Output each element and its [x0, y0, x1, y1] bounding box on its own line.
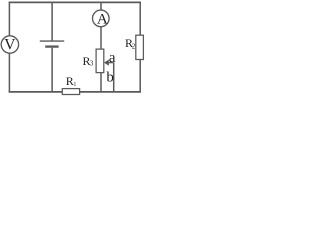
resistor R2 body	[136, 35, 144, 59]
wire top bus	[9, 1, 141, 3]
svg-text:b: b	[106, 70, 114, 86]
wire right branch lower	[139, 60, 141, 93]
label R3	[83, 54, 94, 68]
battery cell	[40, 41, 64, 47]
wire wiper drop to bottom bus	[113, 63, 115, 92]
wire rheostat lower lead	[100, 73, 102, 92]
svg-text:1: 1	[73, 82, 76, 88]
label R1	[66, 74, 77, 88]
resistor R1 body	[62, 89, 79, 95]
wiper arrow of R3	[104, 60, 114, 66]
rheostat R3 body	[96, 49, 104, 73]
wire ammeter branch upper	[100, 2, 102, 10]
voltmeter V1	[1, 36, 18, 53]
wire bottom bus right	[80, 91, 141, 93]
svg-text:V: V	[4, 37, 16, 54]
label R2	[125, 36, 136, 50]
wire right branch upper	[139, 2, 141, 35]
wire left branch upper	[8, 2, 10, 36]
wire left branch lower	[8, 53, 10, 92]
wire battery branch lower	[51, 48, 53, 92]
svg-text:3: 3	[90, 60, 94, 68]
svg-text:a: a	[109, 49, 116, 66]
svg-text:A: A	[97, 12, 108, 28]
wire battery branch upper	[51, 2, 53, 41]
wire ammeter to rheostat	[100, 27, 102, 49]
svg-text:2: 2	[132, 42, 136, 50]
ammeter A1	[93, 10, 110, 27]
wire bottom bus left	[9, 91, 63, 93]
